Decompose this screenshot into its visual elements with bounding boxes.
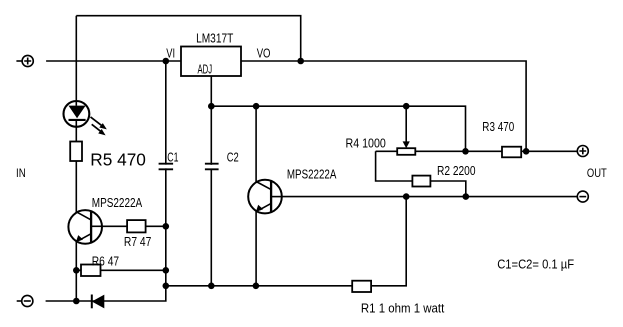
svg-text:ADJ: ADJ bbox=[198, 62, 213, 77]
svg-text:R1 1 ohm 1 watt: R1 1 ohm 1 watt bbox=[361, 301, 445, 316]
junction VI node bbox=[163, 58, 170, 65]
terminal OUT- bbox=[577, 191, 588, 202]
transistor Q1 MPS2222A bbox=[68, 210, 102, 244]
junction R2 riser node bbox=[463, 193, 470, 200]
wire C1 column: VI node down through C1, R7, R6 junctions to bottom rail, left to IN- terminal bbox=[46, 61, 166, 301]
svg-text:R6 47: R6 47 bbox=[92, 253, 119, 268]
svg-text:IN: IN bbox=[16, 166, 26, 180]
potentiometer R4 body bbox=[397, 148, 415, 155]
junction ADJ node bbox=[208, 103, 215, 110]
wire R6 row bbox=[76, 269, 166, 271]
resistor R1 body bbox=[352, 281, 371, 292]
junction R3 right node bbox=[523, 148, 530, 155]
terminal IN- bbox=[17, 295, 33, 306]
capacitor C1 bbox=[158, 164, 175, 170]
LED indicator diode bbox=[64, 101, 107, 135]
svg-text:C1: C1 bbox=[167, 149, 178, 164]
svg-text:R2 2200: R2 2200 bbox=[437, 163, 476, 178]
resistor R6 body bbox=[81, 265, 101, 277]
svg-text:VO: VO bbox=[257, 46, 271, 61]
wire ADJ pin and C2 column down to sense line bbox=[210, 76, 212, 286]
svg-text:R4 1000: R4 1000 bbox=[346, 136, 386, 151]
wire R4 wiper from ADJ row bbox=[405, 106, 407, 142]
wire sense line y=285.8 through R1 and riser to OUT- row bbox=[166, 197, 406, 286]
terminal OUT+ bbox=[577, 146, 588, 157]
wire input + row: IN+ terminal to VI, through LM317 to VO node and down to R3 junction bbox=[46, 61, 526, 151]
junction sense line left node bbox=[163, 283, 170, 290]
junction Q2 collector node bbox=[253, 103, 260, 110]
resistor R3 body bbox=[502, 147, 521, 158]
wire ADJ node row to R4 right junction bbox=[211, 106, 465, 151]
resistor R7 body bbox=[127, 220, 146, 232]
resistor R5 body bbox=[70, 142, 82, 162]
svg-text:OUT: OUT bbox=[587, 166, 607, 180]
junction R7 right node bbox=[163, 223, 170, 230]
junction R6 right node bbox=[163, 267, 170, 274]
svg-text:MPS2222A: MPS2222A bbox=[92, 195, 143, 210]
junction R4 right node bbox=[462, 148, 469, 155]
junction R1 riser node bbox=[403, 193, 410, 200]
terminal IN+ bbox=[16, 55, 33, 66]
junction bottom rail LED branch node bbox=[73, 298, 80, 305]
junction Q2 emitter node bbox=[253, 283, 260, 290]
wire top rail from input column to VO node bbox=[76, 16, 300, 61]
potentiometer R4 wiper arrowhead bbox=[403, 141, 410, 148]
junction C2 bottom node bbox=[208, 283, 215, 290]
svg-text:R7 47: R7 47 bbox=[124, 234, 151, 249]
diode D1 on bottom rail bbox=[92, 295, 105, 309]
svg-text:C2: C2 bbox=[227, 150, 239, 165]
svg-text:R5 470: R5 470 bbox=[90, 150, 146, 170]
svg-text:R3 470: R3 470 bbox=[482, 119, 514, 134]
resistor R2 body bbox=[412, 176, 430, 187]
svg-text:C1=C2= 0.1 µF: C1=C2= 0.1 µF bbox=[497, 256, 574, 271]
junction VO node bbox=[297, 58, 304, 65]
wire R4 left arm down through R2 to OUT- row bbox=[376, 151, 466, 196]
svg-text:MPS2222A: MPS2222A bbox=[287, 166, 337, 181]
svg-text:LM317T: LM317T bbox=[196, 30, 233, 45]
transistor Q2 MPS2222A bbox=[248, 180, 282, 214]
wire Q2 base row to OUT- terminal bbox=[282, 196, 577, 198]
wire R4/R3 row to OUT+ terminal bbox=[376, 150, 578, 152]
junction wiper branch node bbox=[403, 103, 410, 110]
wire Q2 collector/emitter column bbox=[255, 106, 257, 286]
wire left column x=76: input row down through LED, R5, Q1 to bottom rail bbox=[75, 16, 77, 301]
capacitor C2 bbox=[204, 164, 221, 170]
junction R6 left node bbox=[73, 267, 80, 274]
wire Q1 base to R7 to C1 column bbox=[102, 225, 166, 227]
op-amp regulator U1 LM317T body bbox=[181, 47, 241, 77]
